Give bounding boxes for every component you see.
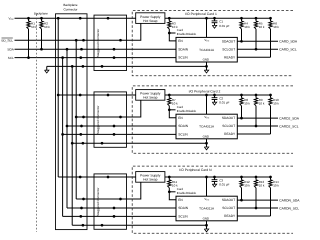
svg-text:SDAIN: SDAIN bbox=[178, 207, 188, 211]
svg-text:Hot Swap: Hot Swap bbox=[143, 19, 157, 23]
svg-text:BD_SEL: BD_SEL bbox=[2, 39, 14, 42]
svg-text:Backplane: Backplane bbox=[63, 3, 77, 6]
svg-text:R6: R6 bbox=[273, 22, 277, 25]
svg-text:SDAOUT: SDAOUT bbox=[222, 40, 235, 44]
svg-text:R3: R3 bbox=[172, 22, 176, 25]
svg-text:10 k: 10 k bbox=[172, 25, 178, 28]
svg-text:Connector: Connector bbox=[63, 8, 77, 11]
svg-text:GND: GND bbox=[203, 58, 209, 61]
svg-text:I/O Peripheral Card 1: I/O Peripheral Card 1 bbox=[185, 13, 217, 17]
svg-text:EN: EN bbox=[178, 40, 182, 44]
svg-text:10 k: 10 k bbox=[259, 102, 265, 105]
svg-text:Card: Card bbox=[177, 28, 183, 31]
svg-text:SCLIN: SCLIN bbox=[178, 56, 187, 60]
svg-text:TCA4311A: TCA4311A bbox=[199, 207, 214, 210]
svg-text:R5: R5 bbox=[259, 22, 263, 25]
svg-text:Enable/Disable: Enable/Disable bbox=[177, 191, 197, 194]
svg-text:10 k: 10 k bbox=[44, 25, 50, 28]
svg-text:Power Supply: Power Supply bbox=[140, 15, 160, 19]
svg-text:SCLIN: SCLIN bbox=[178, 133, 187, 137]
svg-text:0.01 µF: 0.01 µF bbox=[219, 183, 229, 186]
svg-text:Card: Card bbox=[177, 105, 183, 108]
svg-text:R12: R12 bbox=[244, 180, 250, 183]
svg-text:READY: READY bbox=[224, 56, 235, 60]
svg-text:SCLOUT: SCLOUT bbox=[222, 206, 235, 210]
svg-text:10 k: 10 k bbox=[172, 102, 178, 105]
svg-text:R11: R11 bbox=[172, 180, 177, 183]
svg-text:0.01 µF: 0.01 µF bbox=[219, 101, 229, 104]
svg-text:GND: GND bbox=[203, 135, 209, 138]
svg-text:SCLOUT: SCLOUT bbox=[222, 48, 235, 52]
svg-text:SCLIN: SCLIN bbox=[178, 215, 187, 219]
svg-text:SDAIN: SDAIN bbox=[178, 125, 188, 129]
svg-text:I/O Peripheral Card 2: I/O Peripheral Card 2 bbox=[189, 90, 221, 94]
svg-text:CARD2_SCL: CARD2_SCL bbox=[279, 125, 299, 129]
svg-text:SCL: SCL bbox=[8, 56, 14, 59]
svg-text:Hot Swap: Hot Swap bbox=[143, 178, 157, 182]
svg-text:R1: R1 bbox=[31, 22, 35, 25]
svg-text:10 k: 10 k bbox=[172, 184, 178, 187]
svg-text:R14: R14 bbox=[273, 180, 279, 183]
svg-text:CARDN_SCL: CARDN_SCL bbox=[279, 207, 299, 211]
svg-text:10 k: 10 k bbox=[259, 25, 265, 28]
svg-text:R4: R4 bbox=[244, 22, 248, 25]
svg-text:10 k: 10 k bbox=[259, 184, 265, 187]
svg-text:C2: C2 bbox=[219, 97, 223, 100]
svg-text:Hot Swap: Hot Swap bbox=[143, 96, 157, 100]
svg-text:C1: C1 bbox=[219, 20, 223, 23]
svg-text:READY: READY bbox=[224, 214, 235, 218]
svg-text:SDA: SDA bbox=[7, 48, 14, 51]
svg-text:TCA4311A: TCA4311A bbox=[199, 48, 214, 51]
svg-text:CARD_SDA: CARD_SDA bbox=[279, 40, 297, 44]
svg-text:10 k: 10 k bbox=[31, 25, 37, 28]
svg-text:Backplane: Backplane bbox=[34, 12, 48, 15]
svg-text:READY: READY bbox=[224, 132, 235, 136]
svg-text:10 k: 10 k bbox=[273, 102, 279, 105]
svg-text:10 k: 10 k bbox=[273, 184, 279, 187]
svg-text:TCA4311A: TCA4311A bbox=[199, 125, 214, 128]
svg-text:CARDN_SDA: CARDN_SDA bbox=[279, 199, 299, 203]
svg-text:Enable/Disable: Enable/Disable bbox=[177, 109, 197, 112]
svg-text:R8: R8 bbox=[244, 98, 248, 101]
svg-text:10 k: 10 k bbox=[244, 102, 250, 105]
svg-text:R7: R7 bbox=[172, 98, 176, 101]
svg-text:Enable/Disable: Enable/Disable bbox=[177, 33, 197, 36]
svg-text:GND: GND bbox=[203, 217, 209, 220]
svg-text:SDAOUT: SDAOUT bbox=[222, 117, 235, 121]
svg-text:0.01 µF: 0.01 µF bbox=[219, 24, 229, 27]
svg-text:CARD2_SDA: CARD2_SDA bbox=[279, 117, 299, 121]
svg-text:Power Supply: Power Supply bbox=[140, 174, 160, 178]
svg-text:10 k: 10 k bbox=[273, 25, 279, 28]
svg-text:Card: Card bbox=[177, 187, 183, 190]
svg-text:10 k: 10 k bbox=[244, 184, 250, 187]
svg-text:Staggered Connector: Staggered Connector bbox=[96, 106, 99, 135]
svg-text:R9: R9 bbox=[259, 98, 263, 101]
svg-text:SDAOUT: SDAOUT bbox=[222, 199, 235, 203]
svg-text:SCLOUT: SCLOUT bbox=[222, 124, 235, 128]
svg-text:I/O Peripheral Card N: I/O Peripheral Card N bbox=[179, 168, 211, 172]
svg-text:SDAIN: SDAIN bbox=[178, 48, 188, 52]
svg-text:Staggered Connector: Staggered Connector bbox=[96, 29, 99, 58]
svg-text:EN: EN bbox=[178, 198, 182, 202]
svg-text:EN: EN bbox=[178, 116, 182, 120]
svg-text:10 k: 10 k bbox=[244, 25, 250, 28]
svg-text:Staggered Connector: Staggered Connector bbox=[96, 188, 99, 217]
svg-text:R2: R2 bbox=[44, 22, 48, 25]
svg-text:C3: C3 bbox=[219, 179, 223, 182]
svg-text:CARD_SCL: CARD_SCL bbox=[279, 48, 297, 52]
svg-text:R10: R10 bbox=[273, 98, 279, 101]
svg-text:R13: R13 bbox=[259, 180, 265, 183]
svg-text:Power Supply: Power Supply bbox=[140, 92, 160, 96]
